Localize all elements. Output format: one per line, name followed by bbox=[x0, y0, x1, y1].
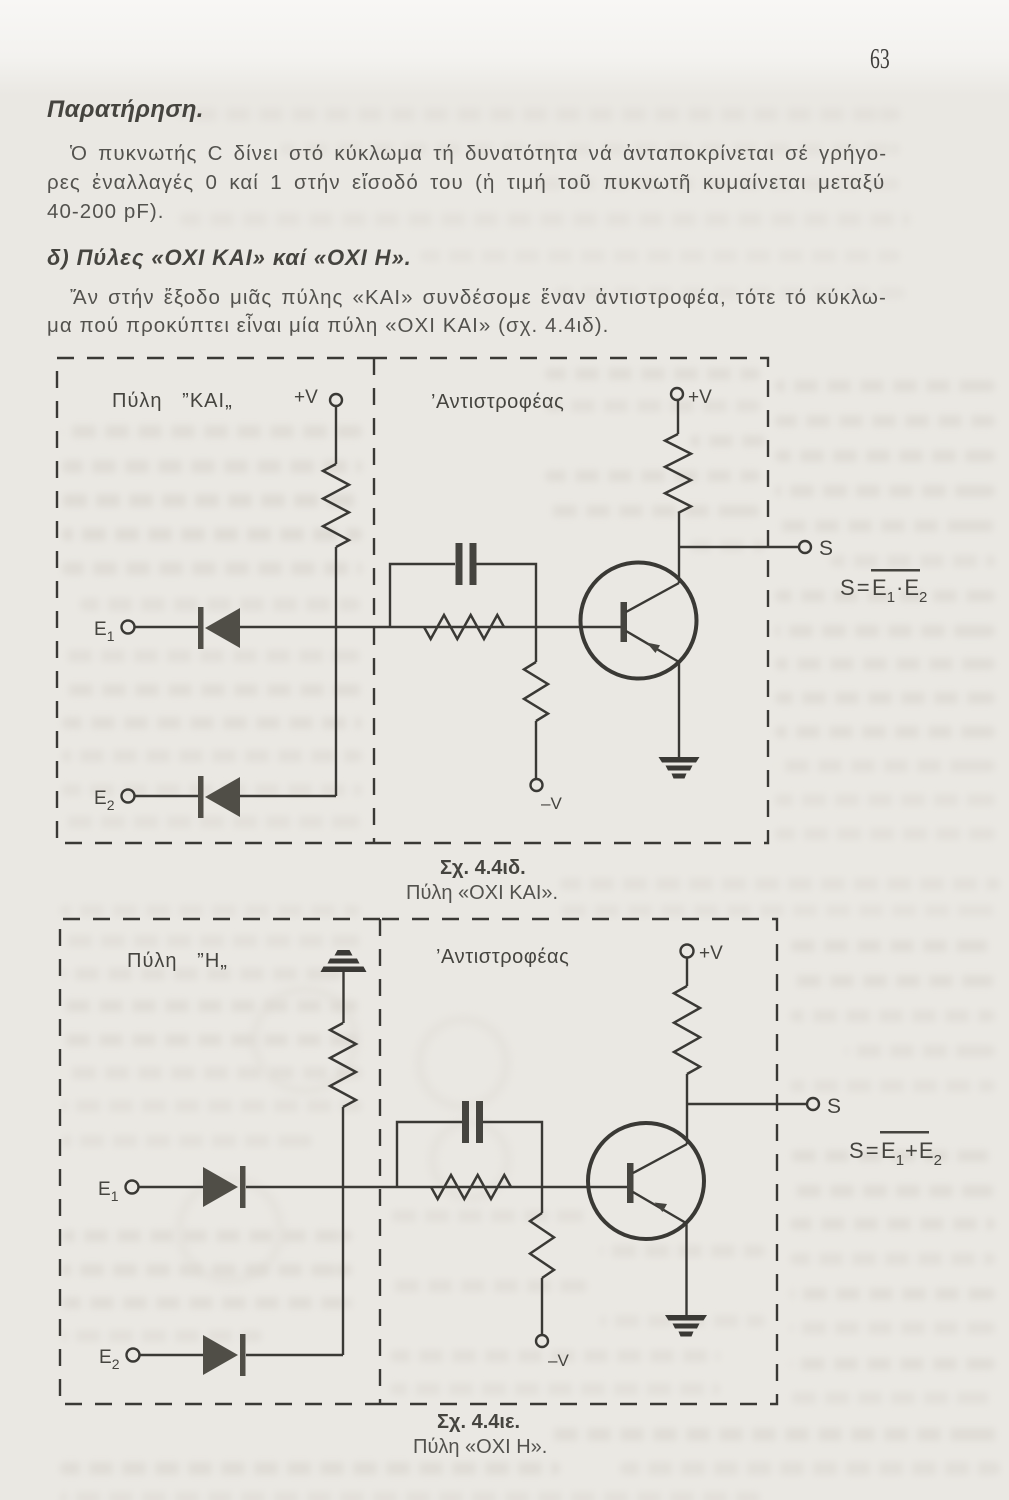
wire R8 to -V terminal bbox=[541, 1278, 543, 1335]
svg-text:’Αντιστροφέας: ’Αντιστροφέας bbox=[436, 946, 569, 968]
svg-text:E2: E2 bbox=[94, 788, 115, 813]
resistor R1 bbox=[323, 464, 349, 547]
wire output S bbox=[678, 546, 799, 548]
svg-text:E1: E1 bbox=[98, 1179, 119, 1204]
wire output S bbox=[687, 1103, 807, 1105]
node E1 input terminal bbox=[122, 621, 135, 634]
resistor R8 bbox=[530, 1213, 554, 1278]
wire collector up bbox=[678, 513, 680, 583]
wire emitter to ground bbox=[685, 1223, 687, 1316]
svg-text:’Αντιστροφέας: ’Αντιστροφέας bbox=[431, 391, 564, 413]
svg-text:S: S bbox=[827, 1095, 841, 1118]
wire E1 to D1 bbox=[135, 626, 199, 628]
wire base bbox=[542, 1186, 628, 1188]
wire R2 to +V terminal bbox=[677, 400, 679, 434]
capacitor C1 bbox=[456, 543, 477, 585]
wire capacitor branch left bbox=[397, 1122, 462, 1187]
svg-text:Πύλη ”ΚΑΙ„: Πύλη ”ΚΑΙ„ bbox=[112, 390, 233, 412]
wire R6 to +V terminal bbox=[686, 958, 688, 986]
node +V terminal (gate) bbox=[330, 394, 342, 406]
resistor R4 bbox=[524, 662, 548, 721]
dashed divider bbox=[379, 919, 381, 1404]
svg-text:Πύλη ”Η„: Πύλη ”Η„ bbox=[127, 950, 228, 972]
wire D1 anode to base network bbox=[240, 626, 536, 628]
node +V terminal (inverter) bbox=[671, 388, 683, 400]
wire node to R4 bbox=[535, 627, 537, 662]
svg-text:E1·E2: E1·E2 bbox=[872, 575, 927, 606]
node -V terminal bbox=[536, 1335, 548, 1347]
dashed box: inverter enclosure bbox=[380, 919, 777, 1404]
svg-text:E1+E2: E1+E2 bbox=[881, 1138, 942, 1169]
paragraph 2 bbox=[47, 284, 887, 339]
wire emitter to ground bbox=[678, 662, 680, 757]
formula S = not(E1+E2) bbox=[849, 1131, 942, 1169]
chassis symbol (top of R5) bbox=[321, 950, 367, 972]
caption fig 4.4ie bbox=[437, 1411, 520, 1434]
wire D2 anode to node bbox=[240, 795, 336, 797]
resistor R7 bbox=[431, 1175, 511, 1199]
wire D4 cathode to node bbox=[246, 1354, 343, 1356]
svg-text:S: S bbox=[819, 537, 833, 560]
node S output terminal bbox=[799, 541, 811, 553]
dashed divider between gate and inverter bbox=[373, 358, 375, 843]
wire D3 cathode to base network bbox=[246, 1186, 542, 1188]
formula S = not(E1.E2) bbox=[840, 569, 927, 606]
node -V terminal bbox=[531, 779, 543, 791]
wire base bbox=[536, 626, 621, 628]
wire R1 to diode anodes common node bbox=[335, 547, 337, 796]
wire +V to R1 bbox=[335, 406, 337, 464]
wire R5 to diode cathodes common node bbox=[342, 1107, 344, 1355]
svg-text:S=: S= bbox=[840, 575, 870, 600]
resistor R6 bbox=[674, 986, 700, 1074]
resistor R3 bbox=[424, 615, 504, 639]
svg-text:+V: +V bbox=[699, 943, 723, 964]
dashed box: gate KAI enclosure bbox=[57, 358, 374, 843]
caption fig 4.4id bbox=[440, 857, 526, 880]
wire E2 to D2 bbox=[135, 795, 199, 797]
ground bbox=[665, 1315, 707, 1337]
wire E2 to D4 bbox=[140, 1354, 205, 1356]
wire node to R8 bbox=[541, 1187, 543, 1213]
node S output terminal bbox=[807, 1098, 819, 1110]
diode D3 bbox=[203, 1166, 246, 1208]
heading Paratirisi bbox=[47, 96, 204, 124]
heading d) Pyles bbox=[47, 245, 412, 271]
wire capacitor C2 right plate to node bbox=[483, 1122, 542, 1187]
wire capacitor C1 right plate to node bbox=[477, 564, 537, 627]
bleed-through ghost layer bbox=[0, 0, 1009, 1]
resistor R5 bbox=[330, 1023, 356, 1107]
diode D1 bbox=[198, 607, 240, 649]
paragraph 1 bbox=[47, 139, 887, 226]
transistor Q2 bbox=[588, 1123, 704, 1239]
transistor Q1 bbox=[581, 563, 697, 679]
wire R4 to -V terminal bbox=[535, 721, 537, 779]
ground bbox=[659, 757, 700, 779]
page number bbox=[870, 43, 890, 76]
node E1 input terminal bbox=[126, 1181, 139, 1194]
wire E1 to D3 bbox=[139, 1186, 205, 1188]
diode D4 bbox=[203, 1334, 246, 1376]
diode D2 bbox=[198, 776, 240, 818]
dashed box: inverter enclosure bbox=[374, 358, 768, 843]
capacitor C2 bbox=[462, 1101, 483, 1143]
svg-text:+V: +V bbox=[294, 387, 318, 408]
svg-text:–V: –V bbox=[541, 794, 562, 813]
wire collector up bbox=[686, 1074, 688, 1144]
svg-text:–V: –V bbox=[548, 1351, 569, 1370]
wire capacitor branch left bbox=[390, 564, 455, 627]
node +V terminal (inverter) bbox=[681, 945, 694, 958]
svg-text:E2: E2 bbox=[99, 1347, 120, 1372]
svg-text:E1: E1 bbox=[94, 619, 115, 644]
node E2 input terminal bbox=[127, 1349, 140, 1362]
dashed box: gate H enclosure bbox=[60, 919, 380, 1404]
node E2 input terminal bbox=[122, 790, 135, 803]
svg-text:S=: S= bbox=[849, 1138, 879, 1163]
resistor R2 bbox=[665, 434, 691, 513]
wire chassis to R5 bbox=[342, 972, 344, 1023]
svg-text:+V: +V bbox=[688, 387, 712, 408]
